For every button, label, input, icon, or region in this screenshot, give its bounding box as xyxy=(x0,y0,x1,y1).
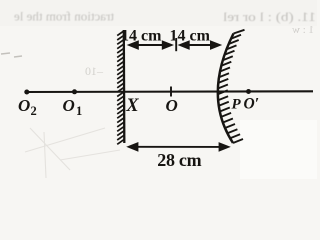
bleed-through faint marks right xyxy=(292,24,314,36)
bleed-through mark -10 (mirrored) xyxy=(85,64,104,78)
label 14 cm left xyxy=(121,28,162,45)
dimension line 14cm left: left arrowhead xyxy=(127,40,139,50)
svg-text:O′: O′ xyxy=(244,96,260,113)
svg-text:–10: –10 xyxy=(85,64,104,78)
dimension line 14cm right: left arrowhead xyxy=(178,40,190,50)
label P xyxy=(232,97,242,113)
svg-text:X: X xyxy=(125,96,139,116)
dimension line 28cm: right arrowhead xyxy=(219,142,231,152)
svg-text:14 cm: 14 cm xyxy=(121,28,162,45)
dimension line 28cm: left arrowhead xyxy=(126,142,138,152)
svg-text:2: 2 xyxy=(31,104,37,118)
point O1 dot xyxy=(72,89,77,94)
svg-text:P: P xyxy=(232,97,242,113)
bleed-through text line (mirrored) right xyxy=(223,9,316,24)
bleed-through text line (mirrored) left xyxy=(14,9,114,24)
point O tick xyxy=(170,87,172,97)
svg-text:11. (b) : l or rel: 11. (b) : l or rel xyxy=(223,9,316,24)
bleed-through dashes top-left xyxy=(1,53,22,57)
svg-text:O: O xyxy=(63,96,75,115)
label O' xyxy=(244,96,260,113)
label O1 xyxy=(63,96,83,118)
plane mirror X : vertical line xyxy=(123,30,126,143)
dimension line 14cm right: line xyxy=(184,44,212,46)
svg-text:traction from the le: traction from the le xyxy=(14,9,114,24)
bleed-through scratches bottom-left xyxy=(25,128,120,178)
point O' dot xyxy=(246,89,251,94)
concave mirror P : hatching xyxy=(218,30,245,143)
label O xyxy=(166,96,178,115)
svg-text:O: O xyxy=(166,96,178,115)
paper background xyxy=(0,0,317,179)
point O2 dot xyxy=(24,90,29,95)
label X xyxy=(125,96,139,116)
dimension line 14cm right: right arrowhead xyxy=(210,40,222,50)
svg-text:28 cm: 28 cm xyxy=(157,150,201,170)
plane mirror X : hatching xyxy=(117,31,124,144)
dimension tick at O xyxy=(175,38,177,51)
label 14 cm right xyxy=(170,28,211,45)
svg-text:1: 1 xyxy=(76,104,82,118)
dimension line 28cm: line xyxy=(132,146,222,148)
svg-text:O: O xyxy=(18,96,30,115)
principal axis xyxy=(26,90,313,93)
dimension line 14cm left: line xyxy=(131,44,168,46)
svg-text:14 cm: 14 cm xyxy=(170,28,211,45)
dimension line 14cm left: right arrowhead xyxy=(162,40,174,50)
label 28 cm xyxy=(157,150,201,170)
svg-text:1 : w: 1 : w xyxy=(292,24,314,36)
concave mirror P : arc xyxy=(218,34,234,144)
label O2 xyxy=(18,96,37,118)
